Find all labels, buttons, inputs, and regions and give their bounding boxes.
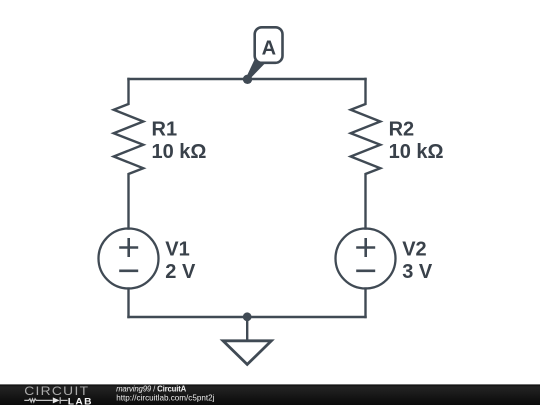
svg-text:A: A: [262, 37, 276, 59]
svg-text:V1: V1: [165, 238, 189, 260]
svg-text:10 kΩ: 10 kΩ: [152, 141, 207, 163]
svg-text:3 V: 3 V: [402, 261, 433, 283]
svg-text:marving99 / CircuitA: marving99 / CircuitA: [116, 385, 187, 394]
svg-text:10 kΩ: 10 kΩ: [389, 141, 444, 163]
svg-text:R1: R1: [152, 119, 178, 141]
svg-text:R2: R2: [389, 119, 415, 141]
svg-text:LAB: LAB: [68, 397, 93, 405]
svg-text:V2: V2: [402, 238, 426, 260]
svg-text:2 V: 2 V: [165, 261, 196, 283]
svg-text:http://circuitlab.com/c5pnt2j: http://circuitlab.com/c5pnt2j: [116, 394, 214, 403]
